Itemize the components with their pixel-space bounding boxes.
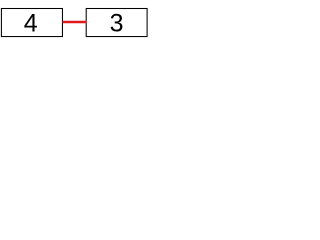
svg-text:3: 3 xyxy=(110,9,124,37)
svg-text:4: 4 xyxy=(24,9,38,37)
